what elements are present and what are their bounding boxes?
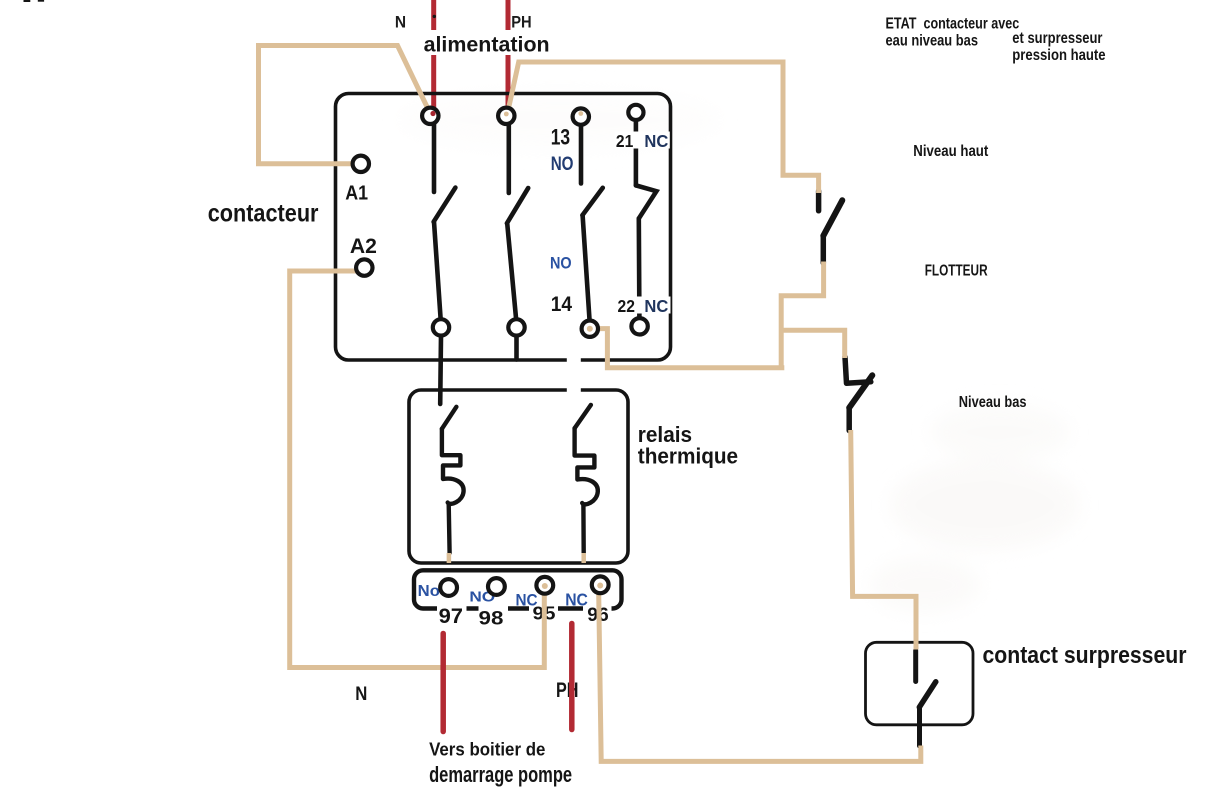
svg-text:NO: NO bbox=[551, 153, 574, 175]
svg-text:N: N bbox=[355, 684, 367, 705]
svg-text:NO: NO bbox=[550, 254, 572, 273]
svg-text:PH: PH bbox=[556, 679, 579, 702]
svg-text:et surpresseur: et surpresseur bbox=[1012, 30, 1102, 47]
svg-text:contacteur: contacteur bbox=[208, 199, 319, 227]
svg-text:A1: A1 bbox=[345, 182, 368, 205]
svg-text:14: 14 bbox=[551, 292, 572, 316]
svg-text:N: N bbox=[395, 13, 406, 31]
svg-text:demarrage pompe: demarrage pompe bbox=[429, 762, 572, 787]
svg-text:No: No bbox=[418, 583, 440, 600]
svg-text:98: 98 bbox=[479, 607, 504, 629]
svg-text:NC: NC bbox=[644, 131, 668, 151]
svg-text:thermique: thermique bbox=[638, 443, 738, 468]
svg-text:Vers boitier de: Vers boitier de bbox=[429, 738, 545, 759]
svg-text:pression haute: pression haute bbox=[1012, 47, 1106, 64]
svg-text:22: 22 bbox=[618, 296, 636, 316]
svg-text:97: 97 bbox=[439, 605, 463, 628]
svg-text:13: 13 bbox=[551, 124, 570, 149]
svg-text:Niveau bas: Niveau bas bbox=[959, 394, 1027, 411]
svg-text:A2: A2 bbox=[350, 235, 377, 258]
svg-text:21: 21 bbox=[616, 131, 634, 151]
svg-text:FLOTTEUR: FLOTTEUR bbox=[925, 262, 988, 279]
svg-text:contact surpresseur: contact surpresseur bbox=[983, 642, 1187, 669]
svg-text:NC: NC bbox=[644, 296, 668, 316]
svg-text:eau niveau bas: eau niveau bas bbox=[886, 33, 979, 50]
svg-text:alimentation: alimentation bbox=[424, 32, 550, 56]
svg-text:ETAT contacteur avec: ETAT contacteur avec bbox=[886, 16, 1020, 33]
svg-text:PH: PH bbox=[511, 13, 531, 31]
svg-text:Niveau haut: Niveau haut bbox=[913, 143, 988, 160]
svg-text:NC: NC bbox=[565, 589, 588, 609]
